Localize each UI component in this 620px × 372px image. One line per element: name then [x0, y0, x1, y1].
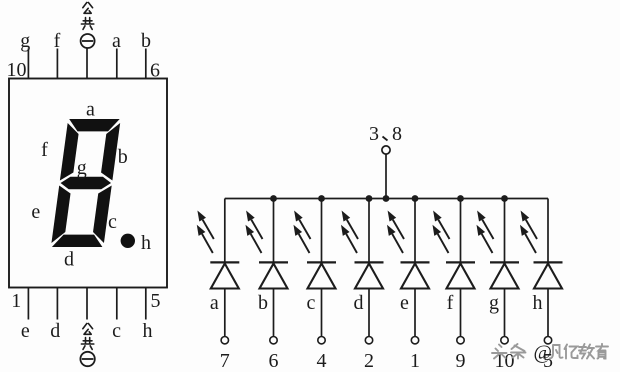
segment label d	[64, 249, 74, 271]
wire: bus to LED a cathode	[224, 199, 226, 263]
wire: bus to LED c cathode	[321, 199, 323, 263]
LED a (cathode bar and triangle)	[210, 262, 239, 288]
junction dot at c column	[318, 195, 325, 202]
common (minus) symbol bottom	[80, 352, 94, 366]
共 (common) top	[81, 18, 93, 30]
wire: bus to LED d cathode	[368, 199, 370, 263]
segment label a	[86, 99, 95, 121]
digit segment e	[51, 186, 71, 244]
svg-text:@: @	[534, 342, 552, 364]
svg-text:7: 7	[220, 350, 230, 372]
7-segment digit figure	[51, 119, 121, 247]
segment label e	[31, 201, 40, 223]
cathode bus wire	[225, 198, 548, 200]
segment designator d	[354, 292, 364, 314]
wire: bus to LED f cathode	[460, 199, 462, 263]
svg-text:h: h	[533, 292, 543, 314]
LED d emission arrows	[341, 211, 358, 254]
svg-text:d: d	[354, 292, 364, 314]
wire from common terminal to cathode bus	[385, 154, 387, 198]
LED h (cathode bar and triangle)	[534, 262, 563, 288]
svg-text:h: h	[141, 232, 151, 254]
svg-text:f: f	[447, 292, 454, 314]
segment designator c	[307, 292, 316, 314]
digit segment f	[60, 123, 80, 181]
svg-text:b: b	[141, 30, 151, 52]
top pin lead (common)	[86, 49, 88, 79]
segment designator a	[210, 292, 219, 314]
LED a emission arrows	[197, 211, 214, 254]
wire: LED c anode to terminal	[321, 289, 323, 337]
svg-text:a: a	[210, 292, 219, 314]
pin label c (bottom)	[112, 320, 121, 342]
bottom pin lead (c)	[116, 288, 118, 320]
pin number 1 (bottom left)	[11, 290, 21, 312]
pin label g (top)	[20, 30, 30, 52]
junction dot at g column	[501, 195, 508, 202]
LED g emission arrows	[477, 211, 494, 254]
net label 3、8 (common cathode pins)	[369, 123, 402, 145]
common terminal circle (pins 3,8)	[382, 146, 390, 154]
top pin lead (a)	[116, 49, 118, 79]
terminal circle pin 5	[544, 337, 551, 344]
svg-text:f: f	[41, 139, 48, 161]
bottom pin lead (common)	[86, 288, 88, 320]
svg-text:2: 2	[364, 350, 374, 372]
svg-text:e: e	[21, 320, 30, 342]
svg-text:10: 10	[7, 59, 27, 81]
digit segment d	[52, 235, 104, 247]
digit segment c	[92, 186, 112, 244]
svg-text:8: 8	[392, 123, 402, 145]
svg-text:6: 6	[269, 350, 279, 372]
terminal circle pin 2	[365, 337, 372, 344]
svg-text:1: 1	[11, 290, 21, 312]
terminal circle pin 7	[221, 337, 228, 344]
digit segment g	[60, 177, 112, 189]
terminal circle pin 4	[318, 337, 325, 344]
pin label f (top)	[54, 30, 61, 52]
watermark 头条 @凡亿教育	[492, 342, 608, 364]
LED e emission arrows	[387, 211, 404, 254]
svg-text:e: e	[400, 292, 409, 314]
svg-text:c: c	[112, 320, 121, 342]
segment label h	[141, 232, 151, 254]
pin label b (top)	[141, 30, 151, 52]
pin label a (top)	[112, 30, 121, 52]
svg-text:h: h	[143, 320, 153, 342]
LED g (cathode bar and triangle)	[490, 262, 519, 288]
LED e (cathode bar and triangle)	[401, 262, 430, 288]
segment label c	[108, 211, 117, 233]
terminal circle pin 9	[457, 337, 464, 344]
wire: bus to LED h cathode	[547, 199, 549, 263]
svg-text:d: d	[50, 320, 60, 342]
segment label b	[118, 146, 128, 168]
svg-text:f: f	[54, 30, 61, 52]
digit segment b	[100, 123, 120, 181]
svg-text:g: g	[489, 292, 499, 314]
公 (common) top	[83, 3, 93, 14]
wire: LED b anode to terminal	[273, 289, 275, 337]
segment designator b	[258, 292, 268, 314]
terminal circle pin 1	[411, 337, 418, 344]
svg-text:5: 5	[151, 290, 161, 312]
pin number 9	[456, 350, 466, 372]
terminal circle pin 10	[501, 337, 508, 344]
svg-text:b: b	[118, 146, 128, 168]
LED b emission arrows	[246, 211, 263, 254]
pin number 1	[410, 350, 420, 372]
segment designator h	[533, 292, 543, 314]
wire: LED a anode to terminal	[224, 289, 226, 337]
pin number 10 (top left)	[7, 59, 27, 81]
LED f emission arrows	[433, 211, 450, 254]
segment designator e	[400, 292, 409, 314]
segment label g	[77, 157, 87, 179]
top pin lead (g)	[27, 49, 29, 79]
svg-text:g: g	[77, 157, 87, 179]
LED d (cathode bar and triangle)	[355, 262, 384, 288]
junction dot at e column	[412, 195, 419, 202]
pin label d (bottom)	[50, 320, 60, 342]
wire: LED d anode to terminal	[368, 289, 370, 337]
wire: LED h anode to terminal	[547, 289, 549, 337]
svg-text:4: 4	[317, 350, 327, 372]
pin number 6 (top right)	[150, 60, 160, 82]
svg-text:c: c	[108, 211, 117, 233]
segment designator g	[489, 292, 499, 314]
display package outline	[9, 79, 167, 288]
svg-text:g: g	[20, 30, 30, 52]
bottom pin lead (e)	[27, 288, 29, 320]
公 (common) bottom	[83, 324, 93, 335]
LED c emission arrows	[294, 211, 311, 254]
svg-text:1: 1	[410, 350, 420, 372]
svg-text:c: c	[307, 292, 316, 314]
wire: LED g anode to terminal	[504, 289, 506, 337]
svg-text:6: 6	[150, 60, 160, 82]
wire: bus to LED g cathode	[504, 199, 506, 263]
pin label e (bottom)	[21, 320, 30, 342]
bottom pin lead (h)	[145, 288, 147, 320]
svg-text:e: e	[31, 201, 40, 223]
pin number 6	[269, 350, 279, 372]
svg-text:3: 3	[369, 123, 379, 145]
top pin lead (f)	[56, 49, 58, 79]
wire: LED e anode to terminal	[414, 289, 416, 337]
segment label f	[41, 139, 48, 161]
pin number 7	[220, 350, 230, 372]
svg-text:a: a	[112, 30, 121, 52]
LED f (cathode bar and triangle)	[446, 262, 475, 288]
svg-text:b: b	[258, 292, 268, 314]
wire: bus to LED b cathode	[273, 199, 275, 263]
decimal point h	[121, 234, 135, 248]
segment designator f	[447, 292, 454, 314]
junction dot at common wire column	[383, 195, 390, 202]
top pin lead (b)	[145, 49, 147, 79]
common (minus) symbol top	[81, 34, 95, 48]
pin number 4	[317, 350, 327, 372]
svg-text:d: d	[64, 249, 74, 271]
junction dot at f column	[457, 195, 464, 202]
svg-text:a: a	[86, 99, 95, 121]
LED c (cathode bar and triangle)	[307, 262, 336, 288]
junction dot at b column	[270, 195, 277, 202]
digit segment a	[68, 119, 120, 131]
junction dot at d column	[366, 195, 373, 202]
pin number 2	[364, 350, 374, 372]
wire: LED f anode to terminal	[460, 289, 462, 337]
pin number 5 (bottom right)	[151, 290, 161, 312]
terminal circle pin 6	[270, 337, 277, 344]
svg-text:9: 9	[456, 350, 466, 372]
wire: bus to LED e cathode	[414, 199, 416, 263]
pin label h (bottom)	[143, 320, 153, 342]
pin number 5	[543, 350, 553, 372]
LED b (cathode bar and triangle)	[259, 262, 288, 288]
共 (common) bottom	[81, 338, 93, 350]
pin number 10	[495, 350, 515, 372]
bottom pin lead (d)	[56, 288, 58, 320]
LED h emission arrows	[520, 211, 537, 254]
